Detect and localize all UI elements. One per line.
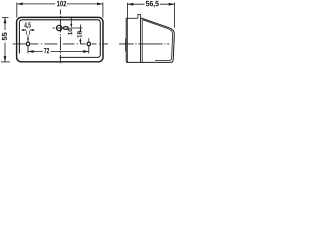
label 55 rotated <box>2 32 7 40</box>
dimension 56,5 left extension line <box>126 3 128 18</box>
side view screw axis cross <box>125 39 127 52</box>
label 102 <box>57 1 66 6</box>
mounting hole left vertical centerline <box>27 40 29 51</box>
front view horizontal centerline <box>13 43 108 45</box>
dimension 18 top arrow <box>79 28 81 32</box>
label 72 <box>44 48 49 53</box>
leader line from 4,5 to hole <box>27 35 29 39</box>
side view base plate top edge <box>126 17 138 19</box>
mounting hole right <box>87 42 91 46</box>
dimension 56,5 right extension line <box>173 3 175 28</box>
front view outer rounded rect <box>17 17 103 61</box>
dimension 55 line <box>4 18 6 62</box>
dimension 10 down arrow <box>70 24 72 28</box>
keyhole slot <box>63 27 68 30</box>
dimension 102 right extension line <box>102 3 104 18</box>
mounting hole right vertical centerline <box>88 38 90 50</box>
side view base plate rear face <box>126 18 128 62</box>
dimension 55 top extension tick <box>2 17 9 19</box>
keyhole circle <box>57 25 62 30</box>
dimension 55 bottom extension tick <box>1 61 10 63</box>
dimension 56,5 right arrow <box>169 3 175 6</box>
dimension 72 left arrow <box>28 50 34 53</box>
front view vertical centerline <box>59 10 61 64</box>
mounting hole left <box>26 42 30 46</box>
label 4,5 <box>24 22 30 28</box>
side view lens outer profile <box>127 18 174 63</box>
label 56,5 <box>146 1 159 8</box>
side view top tab <box>138 14 141 18</box>
dimension 72 extension lines <box>28 47 89 54</box>
label 10 rotated <box>68 28 72 34</box>
side view horizontal centerline <box>119 43 169 45</box>
dimension 55 top arrow <box>4 18 7 24</box>
label 18 rotated <box>77 31 81 37</box>
dimension 102 line <box>17 3 102 5</box>
dimension 72 right arrow <box>83 50 89 53</box>
dimension 18 line <box>79 25 81 44</box>
lens rear inner edge <box>141 20 143 63</box>
dimension 102 left arrow <box>17 3 23 6</box>
keyhole horizontal centerline <box>52 27 82 29</box>
front view inner lens rect <box>19 20 100 58</box>
dimension 55 bottom arrow <box>4 56 7 62</box>
dimension 56,5 left arrow <box>128 3 134 6</box>
side view lens inner profile <box>142 20 172 61</box>
lens rear outer edge <box>140 18 142 62</box>
dimension 4,5 arrows <box>21 29 34 31</box>
dimension 10 line (top edge to keyhole centerline) <box>70 18 72 25</box>
dimension 102 right arrow <box>97 3 103 6</box>
dimension 102 left extension line <box>16 3 18 18</box>
dimension 4,5 extension lines down to hole <box>26 31 29 35</box>
dimension 56,5 line <box>128 3 175 5</box>
dimension 72 line <box>28 51 89 53</box>
dimension 18 bottom arrow <box>79 40 81 44</box>
side view base plate front face <box>126 18 128 62</box>
